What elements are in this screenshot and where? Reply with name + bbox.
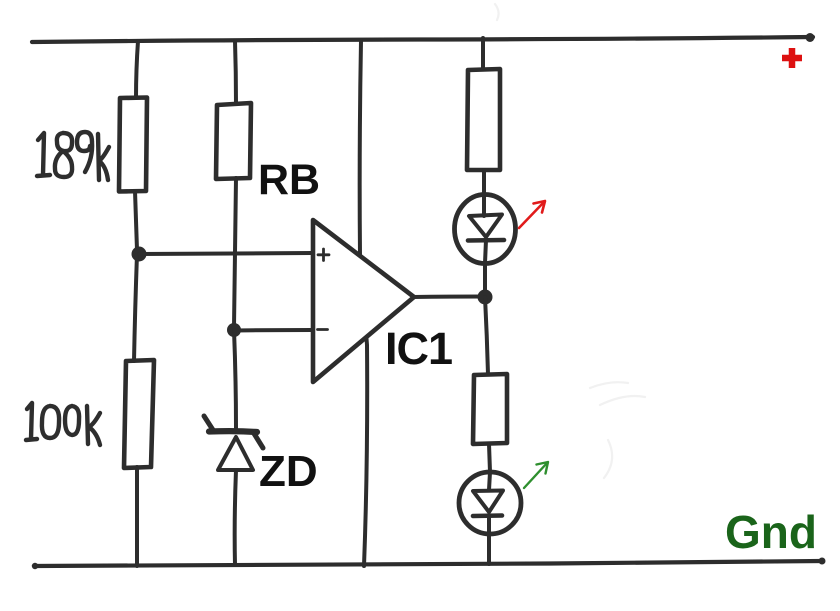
wire node A to op-amp + input — [139, 253, 312, 254]
LED1 diode symbol — [469, 215, 502, 238]
svg-text:RB: RB — [258, 156, 320, 204]
green LED arrow — [524, 462, 548, 488]
wire LED2 to bottom rail — [489, 472, 490, 564]
wire R4 to LED2 — [489, 444, 490, 472]
wire node A to R2 (100k) — [134, 254, 137, 361]
wire middle vertical (supply) top rail to bottom rail — [360, 41, 368, 566]
op-amp - input mark — [318, 328, 328, 331]
label 189k (handwritten) — [37, 132, 109, 180]
svg-text:ZD: ZD — [259, 447, 318, 496]
node C junction dot — [478, 290, 493, 305]
op-amp + input mark — [318, 249, 329, 261]
node A junction dot — [132, 247, 147, 262]
wire node C to R4 — [485, 297, 488, 374]
svg-text:IC1: IC1 — [385, 323, 452, 374]
LED1 circle — [455, 195, 516, 264]
wire LED1 through to node C — [484, 197, 486, 297]
red LED arrow — [519, 201, 545, 228]
wire from top rail to RB — [235, 41, 236, 104]
zener diode ZD cathode bar with bent ends — [204, 416, 213, 430]
resistor R3 body — [467, 69, 500, 170]
wire R1 to node A — [135, 191, 137, 250]
resistor RB body — [216, 103, 251, 179]
wire top rail to R3 — [481, 38, 485, 69]
node bottom rail right end dot — [819, 558, 826, 565]
resistor R1 189k body — [119, 98, 147, 192]
wire from top rail to R1 (189k) — [136, 41, 138, 98]
node B junction dot — [227, 323, 241, 337]
wire ZD to bottom rail — [235, 470, 236, 565]
op-amp IC1 triangle — [313, 220, 414, 382]
LED2 diode symbol — [473, 491, 503, 513]
resistor R2 100k body — [124, 360, 154, 468]
wire top rail (+) — [32, 37, 813, 42]
wire bottom rail (Gnd) — [34, 561, 822, 566]
label + (net, red) — [782, 48, 802, 68]
label 100k (handwritten) — [26, 403, 100, 445]
wire RB to node B (crosses + input wire) — [234, 178, 236, 327]
paper smudge texture — [495, 4, 645, 478]
node bottom rail left end dot — [32, 563, 38, 569]
wire op-amp output to node C — [413, 295, 484, 300]
svg-text:Gnd: Gnd — [725, 506, 817, 558]
zener diode ZD anode triangle — [218, 437, 253, 470]
wire R2 to bottom rail — [135, 467, 139, 566]
wire node B to zener ZD — [234, 330, 236, 428]
wire node B to op-amp - input — [234, 328, 312, 333]
wire R3 to LED1 — [482, 170, 486, 197]
resistor R4 body — [473, 374, 507, 444]
node top rail right end dot — [806, 33, 815, 42]
LED2 circle — [459, 472, 521, 534]
